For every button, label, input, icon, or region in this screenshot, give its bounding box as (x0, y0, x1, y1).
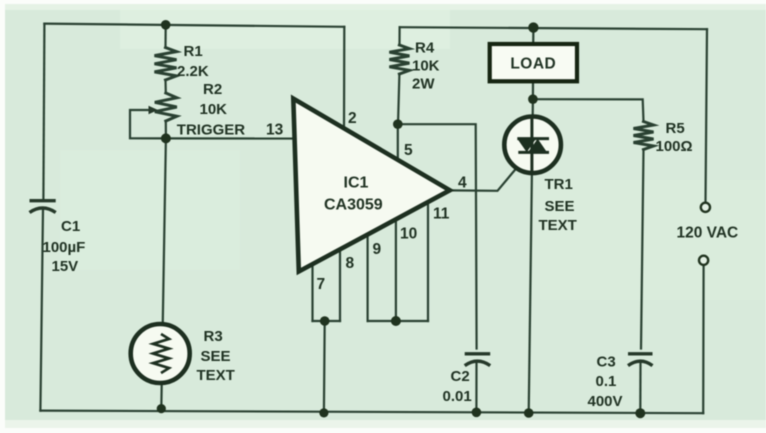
wire left rail upper (to C1) (43, 24, 44, 200)
svg-text:0.1: 0.1 (596, 373, 617, 390)
svg-text:LOAD: LOAD (510, 56, 556, 73)
wire pin 9-10-11 tie (368, 320, 428, 322)
node D load top (528, 22, 538, 32)
label R3 (197, 328, 235, 384)
label C3 (588, 354, 623, 411)
terminal 120VAC bottom (699, 256, 708, 265)
wire top-right rail (400, 27, 707, 29)
resistor R3 body circle (131, 324, 190, 383)
wire R2 bottom lead (165, 121, 167, 138)
svg-text:7: 7 (317, 276, 326, 293)
svg-text:SEE: SEE (201, 348, 231, 365)
svg-text:120 VAC: 120 VAC (677, 225, 739, 242)
svg-text:R2: R2 (203, 81, 222, 98)
wire left rail lower (C1 to bottom) (40, 209, 43, 411)
svg-text:IC1: IC1 (344, 175, 369, 192)
svg-text:8: 8 (346, 255, 355, 272)
wire node5 to R5 corner (533, 99, 644, 121)
svg-text:R3: R3 (204, 328, 223, 345)
svg-text:CA3059: CA3059 (324, 197, 383, 214)
label C1 (43, 218, 86, 275)
wire pin7/8 ground drop (323, 321, 326, 413)
wire right drop to 120VAC top terminal (706, 29, 708, 202)
wire R3 branch vertical (161, 138, 166, 408)
capacitor C2 (465, 354, 491, 366)
svg-text:10K: 10K (412, 58, 440, 75)
svg-text:13: 13 (266, 122, 284, 139)
svg-text:15V: 15V (52, 258, 79, 275)
svg-text:100µF: 100µF (43, 239, 86, 256)
svg-text:100Ω: 100Ω (656, 138, 693, 155)
capacitor C3 (628, 354, 653, 366)
node H R3 bottom (157, 404, 166, 413)
node C pin5/R4/C2 (393, 119, 403, 129)
wire R1 top lead (164, 25, 166, 48)
svg-text:C1: C1 (61, 218, 80, 235)
label R1 (177, 43, 209, 80)
svg-text:2: 2 (348, 110, 357, 127)
svg-text:SEE: SEE (545, 198, 575, 215)
svg-text:400V: 400V (588, 393, 623, 410)
node L C3 bottom (635, 408, 645, 418)
wire pin 11 lead (427, 201, 429, 321)
label C2 (443, 368, 472, 405)
svg-text:9: 9 (373, 241, 382, 258)
svg-text:C3: C3 (597, 354, 616, 371)
wire R4 top corner (398, 27, 400, 45)
wire 120VAC bottom terminal drop (702, 265, 705, 413)
wire LOAD top lead (532, 28, 534, 45)
svg-text:11: 11 (433, 206, 450, 223)
svg-text:R5: R5 (666, 120, 685, 137)
wire R4 bottom lead to node (398, 74, 399, 124)
svg-text:TR1: TR1 (545, 176, 573, 193)
label R2 (200, 81, 228, 118)
resistor R5 (634, 122, 654, 150)
svg-text:C2: C2 (451, 368, 470, 385)
node K TR1 bottom (524, 408, 534, 418)
wire pin 10 lead (395, 218, 397, 321)
node B trigger junction (161, 133, 171, 143)
wire R1-R2 link (164, 80, 167, 93)
node J C2 bottom (472, 408, 482, 418)
wire pin 2 lead (343, 27, 345, 130)
wire pin 7-8 tie (313, 320, 341, 322)
wire C3 bottom lead (639, 362, 641, 413)
resistor R4 (389, 45, 409, 74)
svg-text:0.01: 0.01 (443, 388, 472, 405)
svg-text:TRIGGER: TRIGGER (177, 122, 246, 139)
wire top-left rail (44, 24, 344, 27)
TR1 inner triac symbol (517, 117, 549, 173)
wire pin 7 lead (311, 264, 313, 321)
wire pin 8 lead (339, 249, 341, 321)
svg-text:2W: 2W (412, 76, 435, 93)
node I pin7/8 bottom (319, 408, 328, 417)
wire node to C2 corner (398, 124, 477, 348)
wire pin 13 lead (166, 137, 296, 139)
wire trigger wiper loop (130, 110, 166, 138)
transistor TR1 body circle (504, 117, 561, 174)
wire TR1 vertical through (529, 99, 533, 413)
wire bottom rail (40, 411, 703, 414)
label R4 (412, 40, 440, 93)
svg-text:TEXT: TEXT (539, 217, 577, 234)
label R5 (656, 120, 693, 155)
capacitor C1 (30, 201, 56, 213)
LOAD box (490, 44, 577, 81)
op-amp IC1 body (293, 99, 450, 272)
R3 inner zigzag (153, 334, 169, 373)
svg-text:R4: R4 (415, 40, 435, 57)
wire pin 5 lead (397, 124, 399, 162)
node E load bottom (528, 94, 538, 104)
resistor R1 (155, 48, 177, 81)
node A top-left (R1 top) (161, 20, 171, 30)
resistor R2 (pot) (155, 93, 177, 121)
terminal 120VAC top (701, 203, 710, 212)
potentiometer arrow R2 wiper (149, 106, 159, 115)
wire C2 bottom lead (475, 362, 477, 412)
svg-text:R1: R1 (184, 43, 203, 60)
label TR1 (539, 176, 577, 234)
svg-text:TEXT: TEXT (197, 367, 235, 384)
svg-text:5: 5 (404, 142, 413, 159)
node G pin9/10/11 tie (391, 316, 401, 326)
wire pin 9 lead (367, 234, 369, 321)
wire pin 4 + gate lead (450, 153, 530, 191)
node F pin7/8 tie (320, 316, 330, 326)
wire R5 to C3 (641, 150, 644, 349)
svg-text:4: 4 (458, 175, 467, 192)
svg-text:10K: 10K (200, 101, 228, 118)
svg-text:2.2K: 2.2K (177, 63, 209, 80)
wire LOAD bottom lead (532, 81, 534, 99)
svg-text:10: 10 (400, 226, 417, 243)
